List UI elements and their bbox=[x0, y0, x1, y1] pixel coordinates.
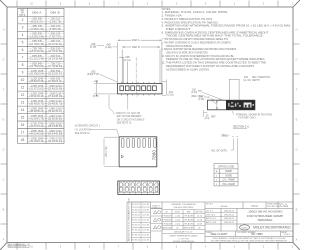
alternate circuit note bbox=[90, 130, 119, 137]
svg-text:PROJECTION: PROJECTION bbox=[267, 206, 280, 208]
general tolerances block bbox=[162, 210, 205, 234]
terminal note bbox=[232, 111, 234, 115]
leader arrows left labels bbox=[97, 46, 118, 82]
svg-text:APPD. E.K.: APPD. E.K. bbox=[206, 217, 217, 220]
svg-text:—(23.75/24.00)—: —(23.75/24.00)— bbox=[27, 65, 47, 68]
svg-text:ADD NOTE 10 & 11, REDRAWN EC 1: ADD NOTE 10 & 11, REDRAWN EC 100-86 bbox=[128, 197, 131, 241]
proprietary statement bbox=[211, 237, 288, 243]
front view outline bbox=[118, 181, 160, 195]
svg-text:D: D bbox=[3, 149, 5, 152]
front view dividers bbox=[124, 181, 154, 195]
svg-text:G: G bbox=[296, 59, 298, 62]
side view outline bbox=[208, 100, 255, 110]
rear view left dimension bbox=[104, 137, 118, 166]
svg-text:—(5.08/5.33)—: —(5.08/5.33)— bbox=[47, 28, 64, 31]
svg-text:18: 18 bbox=[21, 138, 25, 142]
svg-text:—(15.24/15.49)—: —(15.24/15.49)— bbox=[45, 58, 65, 61]
svg-text:12: 12 bbox=[21, 93, 25, 97]
svg-text:CYL. RAMP: CYL. RAMP bbox=[222, 179, 235, 182]
svg-text:DEPTH: DEPTH bbox=[252, 80, 260, 82]
svg-text:±3°: ±3° bbox=[176, 228, 179, 230]
svg-text:—(8.51/8.76)—: —(8.51/8.76)— bbox=[28, 20, 45, 23]
svg-text:EC 86-12: EC 86-12 bbox=[132, 214, 140, 216]
svg-text:SEE CHART: SEE CHART bbox=[210, 232, 227, 236]
svg-text:1. CIRCUIT 1 I.D. MAY OR: 1. CIRCUIT 1 I.D. MAY OR bbox=[113, 112, 140, 115]
svg-text:TYP.: TYP. bbox=[205, 98, 210, 100]
svg-text:POL. RAMP: POL. RAMP bbox=[222, 183, 235, 186]
svg-text:—(2.54/2.79)—: —(2.54/2.79)— bbox=[47, 20, 64, 23]
dim A dimension line above top view bbox=[118, 40, 162, 83]
svg-text:APPD. R.A.: APPD. R.A. bbox=[206, 221, 217, 224]
option code table bbox=[214, 163, 238, 186]
svg-text:CKTS.: CKTS. bbox=[19, 15, 26, 17]
svg-text:EC 86-12: EC 86-12 bbox=[132, 204, 140, 206]
svg-text:7: 7 bbox=[22, 56, 24, 60]
svg-text:1986-08-12: 1986-08-12 bbox=[224, 214, 235, 216]
svg-text:GENERAL TOLERANCES: GENERAL TOLERANCES bbox=[171, 203, 196, 206]
svg-text:(3.96): (3.96) bbox=[198, 99, 204, 101]
zone tick marks and letters left and right edges bbox=[1, 44, 300, 224]
top view housing outline bbox=[118, 84, 162, 94]
svg-text:(0.38): (0.38) bbox=[90, 46, 96, 49]
svg-text:C: C bbox=[296, 179, 298, 182]
svg-text:—(25.40/25.65)—: —(25.40/25.65)— bbox=[45, 88, 65, 91]
svg-text:3 PLACES: 3 PLACES bbox=[162, 219, 173, 222]
svg-text:7880: 7880 bbox=[151, 149, 156, 160]
svg-text:10: 10 bbox=[21, 78, 25, 82]
svg-text:—(36.45/36.70)—: —(36.45/36.70)— bbox=[27, 103, 47, 106]
svg-text:8-12-86: 8-12-86 bbox=[142, 209, 149, 211]
svg-text:—(21.21/21.46)—: —(21.21/21.46)— bbox=[27, 58, 47, 61]
svg-text:11: 11 bbox=[21, 86, 25, 90]
svg-text:—(10.16/10.41)—: —(10.16/10.41)— bbox=[45, 43, 65, 46]
svg-text:—(40.64/40.89)—: —(40.64/40.89)— bbox=[45, 132, 65, 135]
svg-text:WITHIN DIMENSIONS: WITHIN DIMENSIONS bbox=[173, 241, 195, 243]
label .100 (2.54) TYP REF ONLY bbox=[191, 90, 204, 98]
svg-text:1986-08-12: 1986-08-12 bbox=[224, 222, 235, 224]
projection symbol cells bbox=[151, 209, 163, 232]
svg-text:—(20.32/20.57)—: —(20.32/20.57)— bbox=[45, 73, 65, 76]
svg-text:—(27.94/28.19)—: —(27.94/28.19)— bbox=[45, 95, 65, 98]
svg-text:—(44.07/44.32)—: —(44.07/44.32)— bbox=[27, 125, 47, 128]
svg-text:OPTION CODE: OPTION CODE bbox=[218, 166, 235, 168]
svg-text:UNLESS SPECIFIED: UNLESS SPECIFIED bbox=[174, 207, 194, 209]
drawing title text bbox=[247, 210, 283, 223]
svg-text:DIM. A: DIM. A bbox=[132, 39, 140, 42]
circuit 1 id note bbox=[109, 94, 128, 112]
top view circuit square holes bbox=[120, 86, 156, 91]
svg-text:SEE NOTE 10: SEE NOTE 10 bbox=[75, 133, 91, 135]
svg-text:SECTION C-C: SECTION C-C bbox=[233, 126, 249, 129]
svg-text:16: 16 bbox=[21, 123, 25, 127]
svg-text:EC 86-12: EC 86-12 bbox=[132, 219, 140, 221]
table headers bbox=[19, 10, 59, 17]
svg-text:8-12-86: 8-12-86 bbox=[142, 230, 149, 232]
svg-text:—(33.02/33.27)—: —(33.02/33.27)— bbox=[45, 110, 65, 113]
svg-text:±3°: ±3° bbox=[198, 228, 201, 230]
svg-text:—(26.29/26.54)—: —(26.29/26.54)— bbox=[27, 73, 47, 76]
svg-text:2: 2 bbox=[22, 18, 24, 22]
svg-text:±0.08: ±0.08 bbox=[197, 224, 203, 226]
svg-text:1986-08-12: 1986-08-12 bbox=[224, 210, 235, 212]
svg-text:ON 2 CIRCUIT HOUSINGS: ON 2 CIRCUIT HOUSINGS bbox=[117, 119, 145, 121]
dim arrowheads bbox=[96, 40, 162, 97]
title block frame bbox=[127, 202, 293, 243]
svg-text:ALPHA: ALPHA bbox=[221, 205, 228, 208]
svg-text:(1.14): (1.14) bbox=[124, 59, 130, 62]
svg-text:ALTERNATE CIRCUIT 1: ALTERNATE CIRCUIT 1 bbox=[75, 125, 101, 128]
svg-text:H: H bbox=[296, 29, 298, 32]
svg-text:ANGULAR: ANGULAR bbox=[183, 227, 194, 230]
svg-text:G: G bbox=[3, 59, 5, 62]
inner wall line in side view bbox=[216, 100, 218, 110]
svg-text:EC 86-12: EC 86-12 bbox=[132, 240, 140, 242]
svg-text:—(13.59/13.84)—: —(13.59/13.84)— bbox=[27, 35, 47, 38]
svg-text:(11.43): (11.43) bbox=[243, 80, 250, 82]
svg-text:.235: .235 bbox=[94, 81, 99, 83]
svg-text:8: 8 bbox=[22, 63, 24, 67]
svg-text:—(28.83/29.08)—: —(28.83/29.08)— bbox=[27, 80, 47, 83]
svg-text:(5.97): (5.97) bbox=[93, 96, 99, 98]
title block right rows bbox=[205, 202, 293, 236]
svg-text:—(46.61/46.86)—: —(46.61/46.86)— bbox=[27, 132, 47, 135]
svg-text:8-12-86: 8-12-86 bbox=[142, 240, 149, 242]
svg-text:EC 86-12: EC 86-12 bbox=[132, 209, 140, 211]
svg-text:INCH: INCH bbox=[251, 204, 257, 208]
svg-text:—(18.67/18.92)—: —(18.67/18.92)— bbox=[27, 50, 47, 53]
svg-text:1 OF 2: 1 OF 2 bbox=[283, 234, 290, 236]
svg-text:—(16.13/16.38)—: —(16.13/16.38)— bbox=[27, 43, 47, 46]
svg-text:DRAFT WHERE APPLICABLE: DRAFT WHERE APPLICABLE bbox=[169, 235, 198, 238]
dimension chart table bbox=[18, 8, 65, 143]
svg-text:—(31.37/31.62)—: —(31.37/31.62)— bbox=[27, 88, 47, 91]
front view circuit openings bbox=[119, 183, 158, 192]
svg-text:—(17.78/18.03)—: —(17.78/18.03)— bbox=[45, 65, 65, 68]
left vertical dim of top view bbox=[94, 84, 117, 94]
svg-text:MOLEX INCORPORATED: MOLEX INCORPORATED bbox=[253, 226, 291, 230]
contact ticks on top view bbox=[122, 82, 155, 96]
svg-text:17: 17 bbox=[21, 130, 25, 134]
svg-text:8-12-86: 8-12-86 bbox=[142, 235, 149, 237]
svg-text:INCH: INCH bbox=[175, 212, 181, 214]
svg-text:—(41.53/41.78)—: —(41.53/41.78)— bbox=[27, 118, 47, 121]
svg-text:±.010: ±.010 bbox=[175, 216, 181, 218]
svg-text:SD 7880: SD 7880 bbox=[251, 232, 263, 236]
label .156 typ bbox=[198, 96, 210, 101]
centerline through circuit 4 bbox=[135, 58, 137, 98]
svg-text:EC 86-12: EC 86-12 bbox=[132, 235, 140, 237]
bottom left revision box bbox=[8, 243, 29, 248]
svg-text:—(30.48/30.73)—: —(30.48/30.73)— bbox=[45, 103, 65, 106]
svg-text:H: H bbox=[3, 29, 5, 32]
svg-text:MIN. INSERTION: MIN. INSERTION bbox=[252, 77, 271, 79]
svg-text:—(38.10/38.35)—: —(38.10/38.35)— bbox=[45, 125, 65, 128]
svg-text:C: C bbox=[3, 179, 5, 182]
svg-text:8-12-86: 8-12-86 bbox=[142, 224, 149, 226]
svg-text:—(38.99/39.24)—: —(38.99/39.24)— bbox=[27, 110, 47, 113]
svg-text:NO. OF CKTS.: NO. OF CKTS. bbox=[212, 149, 228, 152]
svg-text:—(7.62/7.87)—: —(7.62/7.87)— bbox=[47, 35, 64, 38]
svg-text:(1.60): (1.60) bbox=[167, 94, 173, 96]
svg-text:ANGULAR: ANGULAR bbox=[162, 227, 173, 230]
svg-text:METRIC: METRIC bbox=[196, 212, 204, 214]
svg-text:13: 13 bbox=[21, 100, 25, 104]
svg-text:3 PLACES: 3 PLACES bbox=[184, 219, 195, 222]
document number row bbox=[206, 231, 288, 234]
svg-text:TYP.: TYP. bbox=[198, 91, 203, 93]
svg-text:±.003: ±.003 bbox=[175, 224, 181, 226]
small tick on side view top bbox=[219, 99, 222, 101]
svg-text:—(11.05/11.30)—: —(11.05/11.30)— bbox=[27, 28, 47, 31]
right side dim .063 bbox=[162, 80, 166, 96]
svg-text:8-12-86: 8-12-86 bbox=[142, 214, 149, 216]
svg-text:MM: MM bbox=[187, 212, 191, 214]
svg-text:DIM. B: DIM. B bbox=[50, 11, 59, 15]
svg-text:1986-08-12: 1986-08-12 bbox=[224, 218, 235, 220]
svg-text:⌘: ⌘ bbox=[216, 170, 218, 173]
svg-text:INCORPORATED AND SHOULD NOT BE: INCORPORATED AND SHOULD NOT BE USED WITH… bbox=[211, 240, 288, 243]
svg-text:FOR REF. ONLY.: FOR REF. ONLY. bbox=[239, 118, 257, 120]
svg-text:I.D. LOCATION: I.D. LOCATION bbox=[75, 128, 91, 131]
svg-text:8-12-86: 8-12-86 bbox=[142, 219, 149, 221]
svg-text:RAMP: RAMP bbox=[225, 170, 232, 173]
svg-text:THIS DRAWING CONTAINS INFORMAT: THIS DRAWING CONTAINS INFORMATION THAT I… bbox=[212, 237, 286, 240]
svg-text:4 PLACES: 4 PLACES bbox=[184, 223, 195, 226]
svg-text:(6.4): (6.4) bbox=[205, 118, 210, 120]
svg-text:NONE: NONE bbox=[225, 175, 232, 177]
svg-text:±0.25: ±0.25 bbox=[197, 216, 203, 218]
svg-text:—(35.56/35.81)—: —(35.56/35.81)— bbox=[45, 118, 65, 121]
svg-text:15: 15 bbox=[21, 115, 25, 119]
svg-text:9: 9 bbox=[22, 71, 24, 75]
svg-text:EC 86-12: EC 86-12 bbox=[132, 224, 140, 226]
label .25 ref below side view bbox=[204, 110, 208, 117]
svg-text:4 PLACES: 4 PLACES bbox=[162, 223, 173, 226]
svg-text:14: 14 bbox=[21, 108, 25, 112]
svg-text:±.005: ±.005 bbox=[175, 220, 181, 222]
svg-text:7880 –: 7880 – bbox=[221, 134, 230, 138]
svg-text:—(12.70/12.95)—: —(12.70/12.95)— bbox=[45, 50, 65, 53]
svg-text:CHK. M.S.: CHK. M.S. bbox=[206, 214, 216, 216]
svg-text:(2.54): (2.54) bbox=[191, 92, 197, 94]
svg-text:MAY NOT BE PRESENT: MAY NOT BE PRESENT bbox=[117, 115, 143, 118]
svg-text:3: 3 bbox=[22, 26, 24, 30]
svg-text:TERMINAL: TERMINAL bbox=[257, 218, 273, 222]
svg-text:2 PLACES: 2 PLACES bbox=[162, 215, 173, 218]
svg-text:.295 (7.49): .295 (7.49) bbox=[106, 146, 108, 157]
svg-text:(1.02): (1.02) bbox=[105, 46, 111, 49]
svg-text:ANGULAR TOL ±3°: ANGULAR TOL ±3° bbox=[174, 231, 192, 234]
svg-text:AS DESCRIBED IN UL94V LISTING.: AS DESCRIBED IN UL94V LISTING. bbox=[166, 68, 210, 71]
svg-text:±0.13: ±0.13 bbox=[197, 220, 203, 222]
svg-text:DIM. B: DIM. B bbox=[132, 46, 140, 49]
rear view outline bbox=[119, 137, 157, 167]
title block small row cells text bbox=[206, 202, 281, 207]
svg-text:SYMBOLS: SYMBOLS bbox=[151, 207, 161, 209]
svg-text:—(43.18/43.43)—: —(43.18/43.43)— bbox=[45, 140, 65, 143]
svg-text:5: 5 bbox=[22, 41, 24, 45]
svg-text:DR. BY: DR. BY bbox=[206, 203, 213, 205]
molex logo bbox=[240, 225, 250, 230]
svg-text:—(49.15/49.40)—: —(49.15/49.40)— bbox=[27, 140, 47, 143]
svg-text:2 PLACES: 2 PLACES bbox=[184, 215, 195, 218]
rear view slots bbox=[122, 138, 157, 147]
svg-text:IN.: IN. bbox=[166, 212, 169, 214]
svg-text:DIM. A: DIM. A bbox=[32, 11, 41, 15]
svg-text:SEE NOTE 10: SEE NOTE 10 bbox=[117, 123, 132, 125]
insertion depth dimension bbox=[229, 79, 239, 100]
svg-text:—(33.91/34.16)—: —(33.91/34.16)— bbox=[27, 95, 47, 98]
revision mini cells bbox=[132, 202, 151, 243]
svg-text:TERMINAL SHOWN IN POSITION: TERMINAL SHOWN IN POSITION bbox=[236, 113, 272, 116]
circuit 1 marker in rear view bbox=[121, 155, 123, 158]
svg-text:4: 4 bbox=[22, 33, 24, 37]
svg-text:molex: molex bbox=[242, 227, 249, 229]
svg-text:8-12-86: 8-12-86 bbox=[142, 204, 149, 206]
dim labels above top view bbox=[124, 56, 131, 62]
svg-text:DR. K.T.: DR. K.T. bbox=[206, 210, 214, 212]
svg-text:—(22.86/23.11)—: —(22.86/23.11)— bbox=[45, 80, 65, 83]
terminal dark fill in side view bbox=[226, 100, 255, 109]
svg-text:REF.: REF. bbox=[211, 117, 216, 119]
svg-text:REV. DESCRIPTION: REV. DESCRIPTION bbox=[9, 246, 27, 248]
svg-text:D: D bbox=[296, 149, 298, 152]
svg-text:EC 86-12: EC 86-12 bbox=[132, 230, 140, 232]
svg-text:6: 6 bbox=[22, 48, 24, 52]
svg-text:(0.64) TYP.: (0.64) TYP. bbox=[87, 73, 99, 76]
